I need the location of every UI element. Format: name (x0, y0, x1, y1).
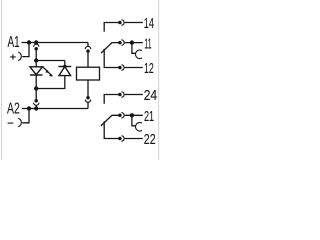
wire to terminal 12 (125, 67, 143, 69)
plug-in connection coil top: socket arc (85, 46, 91, 49)
wire A2 rail (22, 108, 88, 110)
contact 12 fixed contact stub (104, 49, 118, 68)
node junction dot on A2 rail (clamp branch) (27, 106, 31, 110)
svg-text:11: 11 (144, 35, 151, 52)
node junction dot top of LED loop (34, 58, 38, 62)
plug-in connection LED branch bottom: pin dot (34, 99, 38, 103)
LED D1 cathode bar (30, 74, 43, 76)
wire 11 clamp branch (132, 43, 136, 54)
wire LED cathode down (35, 75, 37, 89)
contact 14 fixed contact stub (104, 23, 118, 32)
LED D1 (indicator) anode wire (35, 61, 37, 67)
node junction dot on A1 rail (clamp branch) (27, 40, 31, 44)
plug-in connection coil bottom: socket arc (85, 100, 91, 103)
node junction dot terminal 11 (130, 40, 134, 44)
polarity plus sign (10, 54, 16, 59)
plug-in connection 24: socket arc (121, 92, 124, 98)
wire to terminal 14 (125, 22, 143, 24)
node dot on diode cathode (63, 65, 66, 68)
diode D2 (free-wheeling) top wire (64, 61, 66, 67)
node junction dot terminal 21 (130, 113, 134, 117)
plug-in connection LED branch top: pin dot (34, 47, 38, 51)
wire coil top vertical (87, 43, 89, 68)
plug-in connection 11: pin dot (118, 41, 122, 45)
LED D1 emission arrow 2 (46, 70, 53, 76)
clamp contact A2 (cage clamp arc) (18, 118, 21, 126)
plug-in connection 24: pin dot (118, 93, 122, 97)
svg-text:14: 14 (144, 15, 154, 32)
node junction dot on A2 rail (LED branch) (34, 106, 38, 110)
plug-in connection LED branch top: socket arc (33, 44, 39, 47)
plug-in connection coil bottom: pin dot (86, 96, 90, 100)
plug-in connection 14: pin dot (118, 21, 122, 25)
contact 24 fixed contact stub (104, 95, 118, 104)
plug-in connection 11: socket arc (121, 40, 124, 46)
wire diode anode down (36, 76, 65, 89)
node junction dot bottom of LED loop (34, 86, 38, 90)
plug-in connection 14: socket arc (121, 20, 124, 26)
plug-in connection LED branch bottom: socket arc (33, 103, 39, 106)
contact 22 fixed contact stub (104, 121, 118, 138)
diode D2 cathode bar (58, 66, 71, 68)
wire LED branch vertical (35, 50, 37, 60)
plug-in connection 12: socket arc (121, 65, 124, 71)
wire to terminal 22 (125, 138, 143, 140)
plug-in connection 22: socket arc (121, 136, 124, 142)
wire coil bottom vertical (87, 80, 89, 96)
svg-text:24: 24 (144, 87, 157, 104)
module housing outline right edge (158, 0, 160, 160)
wire A1 clamp branch (22, 43, 29, 57)
wire coil return to A2 rail (87, 102, 89, 108)
svg-text:21: 21 (144, 108, 154, 125)
LED D1 triangle (30, 67, 43, 75)
wire LED/diode loop top rail (36, 60, 65, 62)
svg-text:22: 22 (144, 131, 156, 148)
module housing outline left edge (1, 0, 3, 160)
wire A1 rail (22, 42, 89, 44)
wire LED branch lower vertical (35, 89, 37, 100)
node junction dot on A1 rail (LED branch) (34, 40, 38, 44)
clamp contact 21 (cage clamp arc) (136, 123, 142, 132)
plug-in connection 21: pin dot (118, 114, 122, 118)
wire to terminal 11 (125, 42, 143, 44)
clamp contact A1 (cage clamp arc) (18, 52, 21, 60)
svg-text:A1: A1 (8, 34, 20, 51)
clamp contact 11 (cage clamp arc) (136, 50, 142, 59)
wire to A2 rail (35, 105, 37, 108)
relay coil K1 (77, 67, 100, 80)
plug-in connection 21: socket arc (121, 113, 124, 119)
wire A2 clamp branch (22, 109, 29, 123)
wire to terminal 21 (125, 114, 143, 116)
polarity minus sign (8, 122, 14, 124)
plug-in connection coil top: pin dot (86, 49, 90, 53)
svg-text:12: 12 (144, 60, 154, 77)
svg-text:A2: A2 (7, 101, 20, 118)
plug-in connection 12: pin dot (118, 66, 122, 70)
contact arm (changeover 21) (101, 115, 118, 126)
plug-in connection 22: pin dot (118, 137, 122, 141)
wire 21 clamp branch (132, 115, 136, 126)
wire to terminal 24 (125, 94, 143, 96)
diode D2 triangle (59, 67, 71, 76)
contact arm (changeover 11) (101, 43, 118, 54)
LED D1 emission arrow 1 (42, 67, 49, 73)
